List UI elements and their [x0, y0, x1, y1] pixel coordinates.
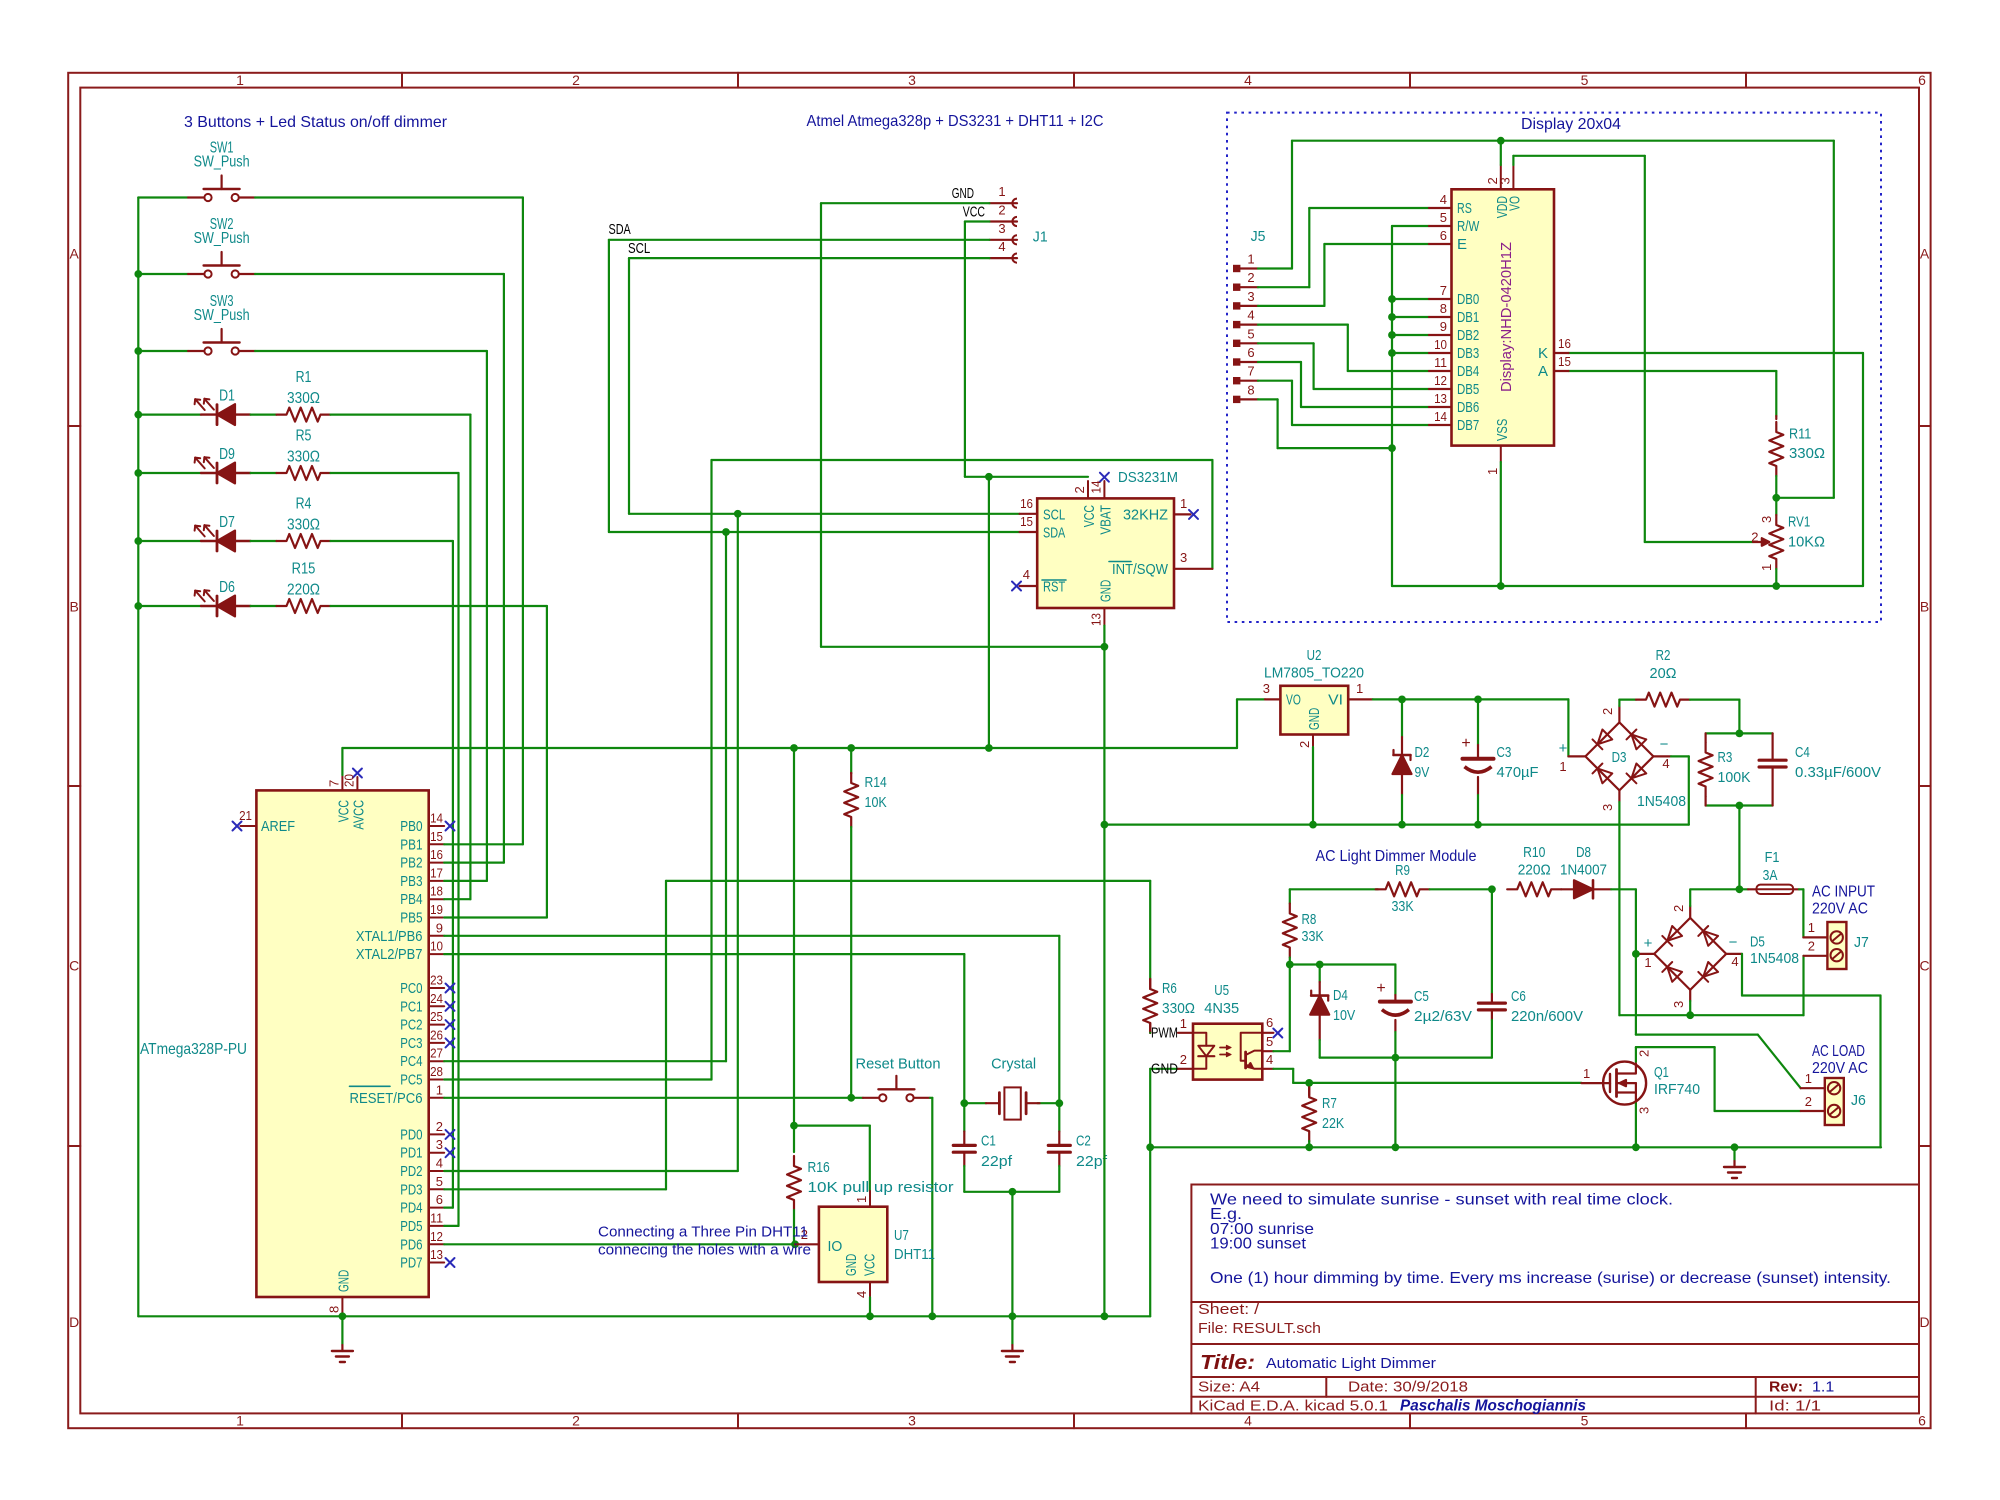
wire SDA: [609, 239, 990, 241]
svg-text:3: 3: [1637, 1107, 1652, 1114]
junction: [1286, 961, 1294, 969]
pin 5 R/W: [1429, 225, 1452, 227]
wire: [457, 473, 459, 1226]
LED D1: [201, 413, 217, 415]
svg-text:PC5: PC5: [400, 1072, 422, 1089]
wire: [255, 196, 523, 198]
wire: [251, 472, 277, 474]
svg-text:PB2: PB2: [400, 855, 422, 872]
ground dimmer: [1733, 1147, 1735, 1161]
svg-text:7: 7: [1247, 364, 1254, 379]
svg-text:R10: R10: [1523, 844, 1545, 861]
svg-text:Title:: Title:: [1200, 1352, 1255, 1374]
node line: [1290, 963, 1396, 965]
svg-text:+: +: [1461, 735, 1470, 752]
svg-text:19: 19: [430, 902, 443, 917]
svg-text:220V AC: 220V AC: [1812, 901, 1868, 918]
wire XTAL2: [444, 953, 964, 955]
pin 3 VO: [1265, 698, 1280, 700]
svg-text:28: 28: [430, 1064, 443, 1079]
ground: [1011, 1316, 1013, 1345]
gnd rail U2: [1104, 823, 1688, 825]
svg-text:GND: GND: [335, 1270, 352, 1292]
svg-text:C1: C1: [981, 1133, 996, 1150]
svg-text:Q1: Q1: [1654, 1064, 1669, 1081]
resistor R3: [1704, 733, 1706, 742]
svg-text:E: E: [1457, 236, 1467, 253]
junction: [985, 744, 993, 752]
svg-text:330Ω: 330Ω: [1162, 1000, 1195, 1017]
svg-text:9: 9: [1440, 319, 1447, 334]
junction: [928, 1312, 936, 1320]
wire: [138, 273, 188, 275]
pin 17 PB3: [429, 880, 445, 882]
svg-text:GND: GND: [952, 185, 974, 202]
LED D9: [201, 472, 217, 474]
junction: [134, 602, 142, 610]
wire: [503, 274, 505, 863]
connector J1: [989, 202, 1017, 204]
pin 7 DB0: [1429, 298, 1452, 300]
zener D2: [1401, 699, 1403, 737]
junction: [790, 744, 798, 752]
svg-text:10KΩ: 10KΩ: [1788, 534, 1825, 551]
svg-text:1: 1: [1808, 920, 1815, 935]
junction: [1388, 349, 1396, 357]
svg-text:2: 2: [1180, 1052, 1187, 1067]
resistor R2: [1619, 698, 1636, 700]
svg-text:Connecting a Three Pin DHT11: Connecting a Three Pin DHT11: [598, 1224, 808, 1241]
svg-text:VCC: VCC: [963, 204, 985, 221]
svg-text:R3: R3: [1718, 749, 1733, 766]
junction: [1392, 1143, 1400, 1151]
pin 3 PD1: [429, 1152, 445, 1154]
svg-text:File: RESULT.sch: File: RESULT.sch: [1198, 1320, 1321, 1337]
pin 2 U5: [1150, 1068, 1178, 1070]
svg-text:2: 2: [1247, 270, 1254, 285]
svg-text:DB7: DB7: [1457, 417, 1479, 434]
svg-text:4: 4: [1266, 1052, 1273, 1067]
svg-text:4: 4: [1244, 72, 1252, 88]
wire DB0-DB3: [1392, 298, 1429, 300]
svg-text:5: 5: [436, 1174, 443, 1189]
capacitor C4: [1771, 733, 1773, 760]
wire: [255, 350, 487, 352]
junction: [1398, 821, 1406, 829]
ground: [341, 1316, 343, 1345]
svg-text:Sheet: /: Sheet: /: [1198, 1301, 1260, 1318]
svg-text:PB5: PB5: [400, 910, 422, 927]
pin 1 32KHZ: [1174, 513, 1190, 515]
svg-text:R8: R8: [1302, 911, 1317, 928]
svg-text:K: K: [1538, 345, 1548, 362]
svg-text:PD0: PD0: [400, 1126, 422, 1143]
wire snubber down: [1738, 806, 1740, 890]
svg-text:F1: F1: [1765, 849, 1780, 866]
svg-text:1: 1: [1485, 468, 1500, 475]
svg-text:AC INPUT: AC INPUT: [1812, 884, 1875, 901]
junction: [1101, 643, 1109, 651]
junction: [1632, 950, 1640, 958]
svg-text:10: 10: [430, 939, 443, 954]
svg-text:220n/600V: 220n/600V: [1511, 1008, 1583, 1025]
pin 26 PC3: [429, 1042, 445, 1044]
wire: [331, 472, 459, 474]
5V rail: [342, 747, 1237, 749]
svg-text:KiCad E.D.A. kicad 5.0.1: KiCad E.D.A. kicad 5.0.1: [1198, 1398, 1388, 1415]
svg-text:PC2: PC2: [400, 1017, 422, 1034]
svg-text:D: D: [1920, 1314, 1930, 1330]
junction: [847, 1094, 855, 1102]
svg-text:PD3: PD3: [400, 1181, 422, 1198]
svg-text:22pf: 22pf: [981, 1153, 1013, 1170]
pin 13 DB6: [1429, 406, 1452, 408]
svg-text:C: C: [1920, 958, 1930, 974]
svg-text:4: 4: [1247, 308, 1254, 323]
junction: [339, 1312, 347, 1320]
svg-text:connecing the holes with a wir: connecing the holes with a wire: [598, 1242, 811, 1259]
svg-text:6: 6: [1266, 1015, 1273, 1030]
svg-text:1: 1: [1559, 759, 1566, 774]
svg-text:6: 6: [436, 1192, 443, 1207]
svg-text:7: 7: [326, 780, 341, 787]
wire GND J1: [821, 202, 989, 204]
svg-text:1: 1: [1180, 1016, 1187, 1031]
svg-text:R/W: R/W: [1457, 218, 1480, 235]
svg-text:3 Buttons + Led Status on/off: 3 Buttons + Led Status on/off dimmer: [184, 114, 448, 131]
svg-text:R1: R1: [296, 369, 312, 386]
junction: [1055, 1099, 1063, 1107]
pin 1 RESET/PC6: [429, 1097, 445, 1099]
svg-text:D3: D3: [1612, 749, 1627, 766]
LED D6: [201, 605, 217, 607]
capacitor C3: [1477, 699, 1479, 745]
wire A: [1569, 370, 1777, 372]
resistor R14: [850, 748, 852, 773]
bottom node line: [1320, 1056, 1492, 1058]
wire: [331, 414, 471, 416]
svg-text:C2: C2: [1076, 1133, 1091, 1150]
svg-text:LM7805_TO220: LM7805_TO220: [1264, 665, 1364, 682]
svg-text:8: 8: [1247, 382, 1254, 397]
wire D5 plus node: [1635, 954, 1637, 1035]
svg-text:PD4: PD4: [400, 1200, 422, 1217]
wire SCL to PD2: [737, 514, 739, 1171]
svg-text:4: 4: [1662, 756, 1669, 771]
resistor R11: [1775, 416, 1777, 419]
IC DS3231M: [1037, 498, 1174, 608]
svg-text:1: 1: [1759, 564, 1774, 571]
svg-text:GND: GND: [1097, 580, 1114, 602]
svg-text:11: 11: [1434, 355, 1447, 370]
svg-text:12: 12: [430, 1229, 443, 1244]
pin 24 PC1: [429, 1005, 445, 1007]
wire: [251, 540, 277, 542]
svg-text:3: 3: [908, 1413, 916, 1429]
capacitor C5: [1394, 965, 1396, 996]
svg-text:C: C: [69, 958, 79, 974]
svg-text:R4: R4: [296, 495, 312, 512]
svg-text:24: 24: [430, 991, 443, 1006]
junction: [1392, 1054, 1400, 1062]
svg-text:1: 1: [236, 1413, 244, 1429]
capacitor C6: [1491, 889, 1493, 994]
wire J5-1 vdd: [1258, 267, 1292, 269]
wire PD6 row: [444, 1243, 795, 1245]
svg-text:D9: D9: [219, 446, 235, 463]
svg-text:AC LOAD: AC LOAD: [1812, 1043, 1865, 1060]
reset button SW: [863, 1097, 879, 1099]
wire J5-2 RS: [1258, 286, 1309, 288]
svg-text:330Ω: 330Ω: [1789, 445, 1825, 462]
svg-text:DHT11: DHT11: [894, 1246, 935, 1263]
left vertical bus wire: [137, 198, 139, 1317]
wire J5-3 E: [1258, 305, 1324, 307]
svg-text:VO: VO: [1286, 692, 1301, 709]
pin 1 U5: [1178, 1032, 1193, 1034]
pin 13 GND DS3231: [1103, 608, 1105, 626]
junction: [1772, 494, 1780, 502]
pin 10 XTAL2/PB7: [429, 953, 445, 955]
wire D5 minus: [1741, 954, 1743, 996]
svg-text:RST: RST: [1043, 579, 1065, 596]
svg-text:20Ω: 20Ω: [1650, 665, 1677, 682]
wire: [138, 472, 201, 474]
svg-text:5: 5: [1440, 210, 1447, 225]
svg-text:U7: U7: [894, 1227, 909, 1244]
svg-text:A: A: [1538, 363, 1548, 380]
junction: [1474, 821, 1482, 829]
svg-text:1N5408: 1N5408: [1637, 793, 1686, 810]
svg-text:D: D: [69, 1314, 79, 1330]
svg-text:−: −: [1660, 736, 1669, 753]
svg-text:J1: J1: [1033, 229, 1048, 246]
svg-text:6: 6: [1918, 1413, 1926, 1429]
pin 9 XTAL1/PB6: [429, 935, 445, 937]
junction: [1488, 885, 1496, 893]
junction: [722, 528, 730, 536]
svg-text:J5: J5: [1251, 228, 1266, 245]
svg-text:3: 3: [908, 72, 916, 88]
pin 5 PD3: [429, 1188, 445, 1190]
svg-text:R11: R11: [1789, 426, 1811, 443]
svg-text:PB0: PB0: [400, 818, 422, 835]
svg-text:4: 4: [436, 1156, 443, 1171]
svg-text:R7: R7: [1322, 1095, 1337, 1112]
display dashed box: [1227, 113, 1881, 622]
svg-text:26: 26: [430, 1027, 443, 1042]
svg-text:3: 3: [1263, 681, 1270, 696]
svg-text:IRF740: IRF740: [1654, 1081, 1700, 1098]
svg-text:B: B: [70, 599, 79, 615]
svg-text:DB6: DB6: [1457, 399, 1479, 416]
svg-text:220Ω: 220Ω: [287, 581, 320, 598]
svg-text:U5: U5: [1214, 982, 1229, 999]
svg-text:6: 6: [1918, 72, 1926, 88]
svg-text:20: 20: [341, 774, 356, 787]
IC U5 4N35: [1149, 1032, 1151, 1034]
svg-text:1: 1: [1180, 496, 1187, 511]
GND rail: [138, 1315, 1150, 1317]
pin 1 VI: [1348, 698, 1373, 700]
junction: [790, 1122, 798, 1130]
svg-text:22pf: 22pf: [1076, 1153, 1108, 1170]
svg-text:2: 2: [436, 1119, 443, 1134]
wire XTAL1: [444, 935, 1059, 937]
junction: [1101, 821, 1109, 829]
svg-text:A: A: [1920, 246, 1930, 262]
switch SW2: [188, 273, 204, 275]
LED D7: [201, 540, 217, 542]
capacitor C1: [963, 1103, 965, 1131]
svg-text:PD6: PD6: [400, 1236, 422, 1253]
pin 2 VDD: [1500, 165, 1502, 189]
pin 8 DB1: [1429, 316, 1452, 318]
snubber rails: [1706, 732, 1773, 734]
junction: [1398, 696, 1406, 704]
svg-text:10: 10: [1434, 337, 1447, 352]
pin 10 DB3: [1429, 352, 1452, 354]
vdd rail: [1292, 140, 1834, 142]
svg-text:We need to simulate sunrise -: We need to simulate sunrise - sunset wit…: [1210, 1192, 1673, 1209]
svg-text:Size: A4: Size: A4: [1198, 1379, 1260, 1396]
svg-text:8: 8: [1440, 301, 1447, 316]
wire: [138, 196, 188, 198]
svg-text:2µ2/63V: 2µ2/63V: [1414, 1008, 1472, 1025]
svg-text:XTAL2/PB7: XTAL2/PB7: [356, 946, 423, 963]
svg-text:R15: R15: [292, 560, 316, 577]
svg-text:4: 4: [1244, 1413, 1252, 1429]
pin 7 VCC: [341, 775, 343, 790]
svg-text:D5: D5: [1750, 934, 1765, 951]
wire SDA to PC4: [725, 532, 727, 1061]
svg-text:6: 6: [1247, 345, 1254, 360]
svg-text:1: 1: [1805, 1071, 1812, 1086]
title block lines: [1191, 1343, 1919, 1345]
svg-text:B: B: [1920, 599, 1929, 615]
svg-text:2: 2: [1637, 1050, 1652, 1057]
pin 3 VO: [1512, 165, 1514, 189]
display bottom rail: [1392, 585, 1863, 587]
svg-text:SCL: SCL: [1043, 506, 1065, 523]
wire Q1 drain: [1635, 1047, 1637, 1062]
transistor Q1 IRF740: [1603, 1062, 1646, 1105]
svg-text:220Ω: 220Ω: [1518, 862, 1551, 879]
svg-text:PD1: PD1: [400, 1145, 422, 1162]
svg-text:1N5408: 1N5408: [1750, 950, 1799, 967]
svg-text:330Ω: 330Ω: [287, 516, 320, 533]
svg-text:100K: 100K: [1718, 769, 1751, 786]
wire PWM PD3: [444, 1188, 666, 1190]
junction: [1736, 802, 1744, 810]
svg-text:11: 11: [430, 1210, 443, 1225]
vo rail: [1513, 155, 1644, 157]
svg-text:DB0: DB0: [1457, 291, 1479, 308]
svg-text:5: 5: [1266, 1034, 1273, 1049]
wire reset row: [444, 1097, 863, 1099]
svg-text:16: 16: [1020, 496, 1033, 511]
svg-text:RS: RS: [1457, 200, 1472, 217]
pin 2 VCC DS3231: [1087, 481, 1089, 498]
wire: [138, 540, 201, 542]
svg-text:VSS: VSS: [1494, 419, 1511, 441]
svg-text:C5: C5: [1414, 988, 1429, 1005]
svg-text:14: 14: [430, 811, 443, 826]
junction: [134, 411, 142, 419]
svg-text:13: 13: [1434, 391, 1447, 406]
junction: [1009, 1188, 1017, 1196]
IC U2 LM7805: [1280, 686, 1348, 735]
wire R9 R8 corner: [1290, 888, 1378, 890]
crystal Y1: [964, 1102, 986, 1104]
svg-text:D6: D6: [219, 579, 235, 596]
junction: [734, 510, 742, 518]
svg-text:13: 13: [1088, 613, 1103, 626]
svg-text:3: 3: [1497, 177, 1512, 184]
wire R16 branch: [793, 748, 795, 1152]
svg-text:DB2: DB2: [1457, 327, 1479, 344]
pin 14 VBAT: [1103, 481, 1105, 498]
svg-text:1: 1: [1356, 681, 1363, 696]
svg-text:4N35: 4N35: [1204, 1000, 1239, 1017]
bridge D3: [1585, 722, 1653, 790]
wire R/W: [1392, 225, 1429, 227]
junction: [847, 744, 855, 752]
svg-text:D4: D4: [1333, 987, 1348, 1004]
wire DS3231 gnd: [1103, 626, 1105, 1317]
wire K: [1569, 352, 1864, 354]
pin 25 PC2: [429, 1024, 445, 1026]
IC U7 DHT11: [795, 1243, 819, 1245]
resistor R9: [1376, 882, 1430, 896]
svg-text:1.1: 1.1: [1812, 1379, 1834, 1396]
svg-text:23: 23: [430, 973, 443, 988]
junction: [1305, 1143, 1313, 1151]
svg-text:PC3: PC3: [400, 1035, 422, 1052]
pin 21 AREF: [240, 825, 256, 827]
svg-text:16: 16: [430, 847, 443, 862]
svg-text:DB5: DB5: [1457, 381, 1479, 398]
wire to bridge plus: [1567, 699, 1569, 756]
junction: [1388, 313, 1396, 321]
svg-text:VO: VO: [1506, 196, 1523, 211]
svg-text:VBAT: VBAT: [1097, 505, 1114, 535]
pin 15 A: [1554, 370, 1569, 372]
svg-text:PD7: PD7: [400, 1255, 422, 1272]
pin 11 DB4: [1429, 370, 1452, 372]
connector J6: [1825, 1078, 1844, 1125]
svg-text:33K: 33K: [1302, 928, 1324, 945]
svg-text:3A: 3A: [1763, 867, 1778, 884]
svg-text:SDA: SDA: [1043, 525, 1065, 542]
pin 14 DB7: [1429, 424, 1452, 426]
svg-text:Crystal: Crystal: [991, 1056, 1036, 1073]
svg-text:1: 1: [854, 1196, 869, 1203]
svg-text:One (1) hour dimming by time.: One (1) hour dimming by time. Every ms i…: [1210, 1270, 1891, 1287]
svg-text:Atmel Atmega328p + DS3231 + DH: Atmel Atmega328p + DS3231 + DHT11 + I2C: [807, 113, 1104, 130]
wire: [138, 605, 201, 607]
svg-text:5: 5: [1581, 72, 1589, 88]
potentiometer RV1: [1775, 498, 1777, 515]
svg-text:D2: D2: [1415, 744, 1430, 761]
svg-text:3: 3: [1180, 550, 1187, 565]
wire D8 to D5 plus: [1611, 888, 1636, 890]
svg-text:VCC: VCC: [862, 1254, 879, 1276]
svg-text:Display:NHD-0420H1Z: Display:NHD-0420H1Z: [1498, 242, 1515, 392]
junction: [1736, 885, 1744, 893]
wire: [486, 351, 488, 881]
junction: [985, 473, 993, 481]
